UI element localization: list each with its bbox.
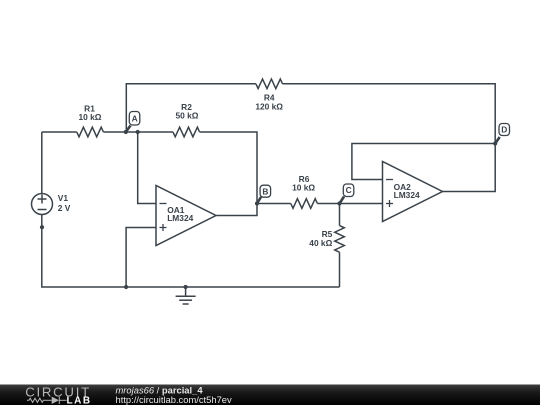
svg-text:2 V: 2 V xyxy=(58,203,71,213)
svg-text:A: A xyxy=(132,113,138,123)
svg-text:C: C xyxy=(346,185,352,195)
svg-text:LM324: LM324 xyxy=(394,190,420,200)
svg-text:40 kΩ: 40 kΩ xyxy=(309,238,332,248)
svg-text:V1: V1 xyxy=(58,193,69,203)
svg-text:LAB: LAB xyxy=(67,396,92,405)
svg-text:10 kΩ: 10 kΩ xyxy=(78,112,101,122)
svg-text:D: D xyxy=(501,125,507,135)
svg-text:120 kΩ: 120 kΩ xyxy=(255,101,283,111)
svg-text:http://circuitlab.com/ct5h7ev: http://circuitlab.com/ct5h7ev xyxy=(116,394,233,405)
svg-text:B: B xyxy=(262,186,268,196)
svg-text:50 kΩ: 50 kΩ xyxy=(175,110,198,120)
svg-text:10 kΩ: 10 kΩ xyxy=(292,182,315,192)
svg-text:LM324: LM324 xyxy=(167,213,193,223)
